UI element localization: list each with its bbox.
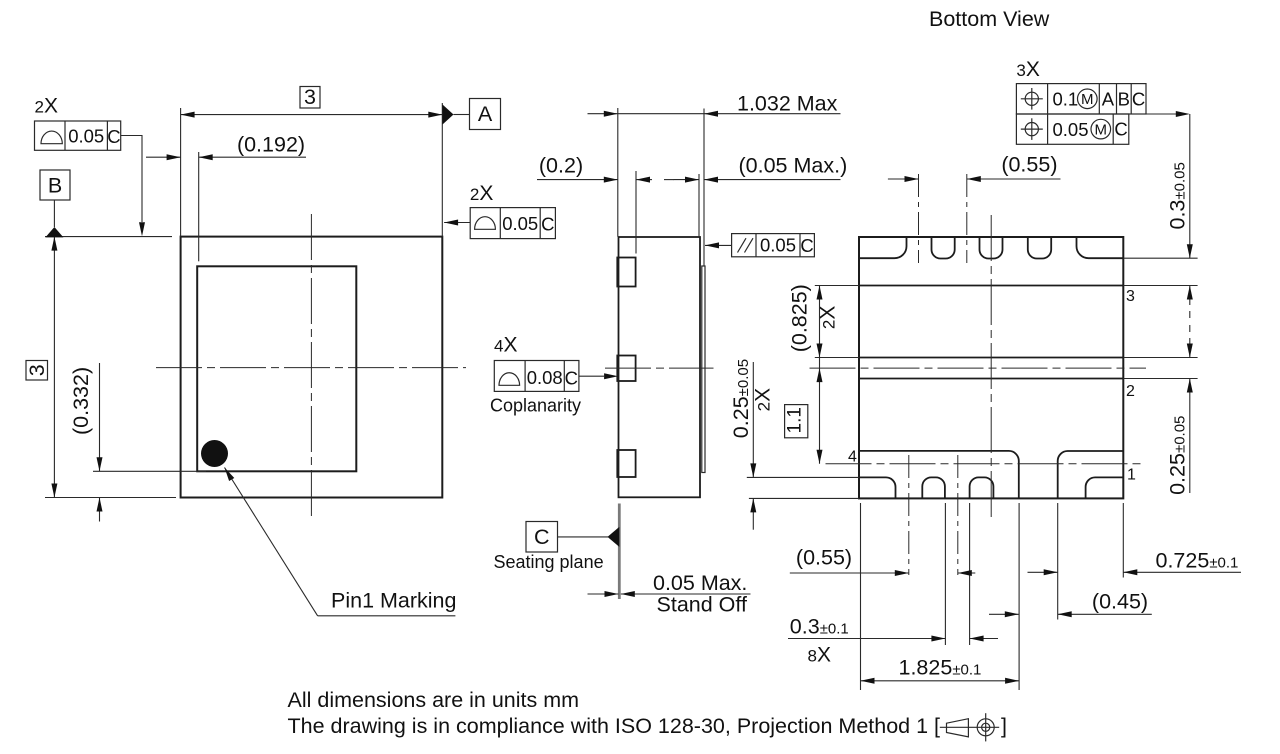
coplanarity dome symbol: [499, 373, 520, 386]
svg-text:2: 2: [1126, 383, 1135, 400]
left extension stubs: [815, 285, 859, 287]
dimension 0.25 +/-0.05 (right): arrows and text: [1189, 379, 1191, 494]
dimension 0.3 +/-0.05 (right): chain line and arrows: [1189, 114, 1191, 258]
svg-text:0.05 Max.: 0.05 Max.: [653, 571, 747, 595]
dimension 1.032 Max: dimension line, arrows, text: [588, 113, 841, 115]
svg-text:2X: 2X: [35, 95, 58, 118]
svg-text:C: C: [565, 367, 578, 388]
parallelism symbol //: [738, 238, 747, 252]
bottom view: pin 1 pad: [1058, 451, 1124, 498]
svg-text:(0.55): (0.55): [796, 546, 852, 570]
svg-text:(0.2): (0.2): [539, 154, 583, 178]
dimension (0.55) top: line, arrows, text: [888, 178, 919, 180]
gap centerlines (top 0.55): [918, 174, 920, 263]
svg-text:0.1: 0.1: [1053, 89, 1079, 110]
svg-text:The drawing is in compliance w: The drawing is in compliance with ISO 12…: [288, 714, 941, 738]
svg-text:8X: 8X: [808, 644, 831, 667]
short centerline dash between dims: [664, 179, 674, 181]
dimension 1.032 Max: extension lines: [617, 108, 619, 237]
dimension (0.05 Max.): dimension line, arrows, text: [674, 179, 700, 181]
svg-text:2X: 2X: [752, 388, 775, 411]
svg-text:3: 3: [304, 85, 316, 109]
bottom view: middle band lines (pin 2 terminal): [859, 357, 1123, 359]
projection method symbol: frustum: [947, 719, 969, 737]
dimension 3 (top): dimension line and arrows: [181, 114, 443, 116]
side view: lead strip right: [702, 266, 705, 473]
coplanarity leader arrow: [579, 375, 604, 377]
parallelism frame: boxes: [732, 234, 815, 257]
dimension 3 (top): boxed value: [300, 87, 320, 109]
surface profile frame (top left): boxes: [35, 121, 121, 150]
svg-text:Bottom View: Bottom View: [929, 7, 1050, 31]
position tolerance frame row 1: [1016, 84, 1146, 114]
dimension (0.2): extension line: [635, 171, 637, 254]
svg-text:4: 4: [848, 449, 857, 466]
dimension (0.332): dimension line, arrows: [99, 363, 101, 471]
svg-text:B: B: [48, 174, 62, 198]
dimension (0.825) 2X: dimension line and arrows: [819, 286, 821, 464]
svg-text:C: C: [1132, 88, 1145, 109]
dimension 3 (left): extension lines: [45, 236, 172, 238]
bottom view: upper band line: [859, 285, 1123, 287]
datum B: box, leader, triangle: [40, 170, 70, 200]
dimension 3 (top): extension lines: [180, 108, 182, 237]
dimension (0.192): extension line: [198, 152, 200, 261]
svg-text:2X: 2X: [817, 306, 840, 329]
right extension stubs: [1123, 257, 1197, 259]
dimension 0.3 +/-0.1 8X: line, arrows, text: [788, 638, 945, 640]
top view horizontal centerline: [156, 367, 466, 369]
svg-text:Stand Off: Stand Off: [657, 593, 747, 617]
svg-text:3: 3: [25, 364, 49, 376]
svg-text:1.032 Max: 1.032 Max: [737, 92, 838, 116]
svg-text:B: B: [1118, 88, 1130, 109]
side view: terminal tab middle: [617, 356, 635, 382]
pin1/pin4 row centerline: [826, 463, 1145, 465]
svg-text:C: C: [541, 213, 554, 234]
svg-text:0.08: 0.08: [527, 367, 563, 388]
dimension 0.05 Max Stand Off: line, arrows, text: [588, 593, 619, 595]
svg-text:A: A: [1102, 88, 1115, 109]
svg-text:3: 3: [1126, 288, 1135, 305]
svg-text:Pin1 Marking: Pin1 Marking: [331, 589, 456, 613]
svg-text:M: M: [1095, 121, 1108, 138]
bottom view: top U pad 3: [1028, 237, 1051, 259]
svg-text:(0.192): (0.192): [237, 133, 305, 157]
leader from frame to dimension chain: [1146, 113, 1176, 115]
position symbol row 1: [1025, 92, 1038, 105]
svg-text:2X: 2X: [470, 182, 493, 205]
dimension (0.45): line, arrows, text: [989, 613, 1019, 615]
top view vertical centerline: [310, 214, 312, 519]
svg-text:0.05: 0.05: [1053, 119, 1089, 140]
bottom view: pin 4 pad: [859, 451, 1019, 499]
svg-text:C: C: [107, 126, 120, 147]
dimension (0.55) bottom: line, arrows, text: [790, 572, 909, 574]
pin 1 marking dot: [201, 440, 228, 467]
datum C: box, leader, triangle: [526, 522, 558, 553]
bottom view: top-right corner pad: [1077, 237, 1124, 258]
projection method symbol: axis: [940, 726, 999, 728]
svg-text:(0.05 Max.): (0.05 Max.): [739, 154, 848, 178]
dimension 0.25 +/-0.05 2X (left): extension lines: [747, 476, 859, 478]
datum A: triangle, leader, box, letter: [443, 105, 454, 125]
bottom view vertical centerline: [990, 215, 992, 522]
bottom view: top U pad 2: [980, 237, 1003, 259]
bottom view horizontal centerline: [810, 367, 1147, 369]
coplanarity frame: boxes: [494, 361, 579, 392]
dimension (0.192): dimension line, arrows, text: [146, 156, 181, 158]
svg-text:(0.55): (0.55): [1001, 153, 1057, 177]
dimension 3 (left): boxed value (rotated): [26, 361, 48, 381]
side view: terminal tab top: [617, 258, 635, 287]
svg-text:A: A: [478, 102, 493, 126]
svg-text:Coplanarity: Coplanarity: [490, 396, 581, 416]
dimension (0.05 Max.): extension line: [698, 174, 700, 237]
svg-text:]: ]: [1001, 714, 1007, 738]
parallelism leader arrow: [705, 244, 732, 246]
svg-text:1: 1: [1127, 467, 1136, 484]
svg-text:M: M: [1081, 91, 1094, 108]
extension verticals below bottom view: [860, 503, 862, 690]
seating plane line: [618, 504, 621, 600]
projection method symbol: circles: [977, 719, 994, 736]
svg-text:(0.825): (0.825): [788, 284, 812, 352]
surface profile symbol (dome): [41, 131, 62, 144]
svg-text:Seating plane: Seating plane: [494, 552, 604, 572]
bottom view: bottom U pad 2: [970, 477, 994, 498]
svg-text:C: C: [1114, 119, 1127, 140]
top view: exposed pad: [197, 266, 356, 471]
bottom view: top-left corner pad: [859, 237, 907, 258]
dimension 0.25 +/-0.05 2X (left): dimension line and arrows: [752, 362, 754, 477]
svg-text:4X: 4X: [494, 334, 517, 357]
dimension (0.332): extension line: [93, 470, 206, 472]
dimension 3 (left): dimension line and arrows: [53, 237, 55, 498]
bottom view: package outline: [859, 237, 1123, 498]
position tolerance frame row 2: [1016, 114, 1128, 144]
dimension (0.2): dimension line, arrows, text: [537, 179, 618, 181]
dimension 0.725 +/-0.1: line, arrows, text: [1028, 571, 1058, 573]
side view: terminal tab bottom: [617, 450, 635, 477]
svg-text:3X: 3X: [1016, 58, 1039, 81]
svg-text:(0.332): (0.332): [69, 367, 93, 435]
side view: body outline: [619, 237, 701, 497]
leader arrow from right frame to edge extension: [444, 222, 470, 224]
svg-text:All dimensions are in units mm: All dimensions are in units mm: [288, 688, 580, 712]
svg-text:0.05: 0.05: [502, 213, 538, 234]
svg-text:0.05: 0.05: [760, 235, 796, 256]
surface profile frame (right): boxes: [470, 208, 555, 239]
position symbol row 2: [1025, 123, 1038, 136]
bottom view: bottom U pad 1: [922, 477, 945, 498]
dimension 1.1 (boxed): arrows and box: [817, 368, 823, 382]
svg-text:(0.45): (0.45): [1092, 590, 1148, 614]
svg-text:1.1: 1.1: [785, 407, 806, 433]
bottom view: pin 1 corner step: [1086, 477, 1124, 498]
surface profile symbol (dome, right frame): [475, 217, 496, 230]
bottom view: pin 4 corner step: [859, 477, 896, 498]
leader from frame to top edge: [121, 136, 142, 223]
bottom view: top U pad 1: [932, 237, 955, 259]
svg-text:C: C: [800, 235, 813, 256]
gap centerlines (bottom 0.55): [908, 455, 910, 575]
top view: package outline: [181, 237, 443, 498]
svg-text:C: C: [534, 525, 550, 549]
side view horizontal centerline: [605, 367, 714, 369]
pin1 marking leader and label: [225, 468, 318, 616]
dimension 1.825 +/-0.1: line, arrows, text: [861, 680, 1020, 682]
svg-text:0.05: 0.05: [68, 125, 104, 146]
